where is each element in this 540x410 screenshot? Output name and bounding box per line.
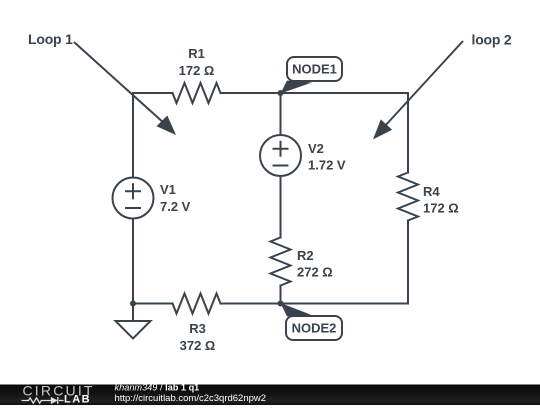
annotation loop 2 arrow: [373, 32, 512, 140]
label R4 value: [423, 184, 459, 216]
voltage source V1: [113, 178, 154, 219]
CircuitLab logo: [22, 382, 95, 405]
label R2 value: [297, 248, 333, 280]
label R3 value: [180, 321, 216, 353]
svg-text:LAB: LAB: [64, 394, 91, 406]
wire middle between V2 and R2: [280, 176, 282, 238]
node NODE2 flag: [281, 303, 343, 340]
footer title text: [115, 383, 267, 405]
resistor R4: [398, 173, 418, 221]
wire left upper: [132, 93, 134, 178]
node NODE1 junction dot: [278, 90, 284, 96]
wire middle top: [280, 93, 282, 135]
wire bottom-right segment: [221, 303, 409, 305]
label V1 value: [160, 182, 191, 214]
svg-text:R3: R3: [189, 321, 206, 336]
svg-text:R1: R1: [188, 46, 205, 61]
wire top-right segment: [221, 92, 409, 94]
resistor R1: [173, 83, 221, 103]
svg-text:NODE1: NODE1: [292, 62, 337, 77]
svg-text:272 Ω: 272 Ω: [297, 265, 333, 280]
svg-text:loop 2: loop 2: [472, 32, 512, 48]
svg-text:NODE2: NODE2: [292, 321, 337, 336]
wire right upper: [407, 93, 409, 173]
node NODE1 flag: [281, 57, 343, 94]
resistor R2: [271, 238, 291, 286]
svg-text:7.2 V: 7.2 V: [160, 199, 191, 214]
svg-text:172 Ω: 172 Ω: [423, 201, 459, 216]
svg-text:172 Ω: 172 Ω: [179, 63, 215, 78]
node NODE2 junction dot: [278, 301, 284, 307]
svg-text:Loop 1: Loop 1: [28, 31, 73, 47]
footer bar: [0, 385, 540, 406]
svg-text:372 Ω: 372 Ω: [180, 338, 216, 353]
svg-text:http://circuitlab.com/c2c3qrd6: http://circuitlab.com/c2c3qrd62npw2: [115, 393, 267, 404]
resistor R3: [173, 294, 221, 314]
svg-text:khanm349 / lab 1 q1: khanm349 / lab 1 q1: [115, 383, 200, 393]
ground: [116, 304, 151, 339]
svg-text:V1: V1: [160, 182, 176, 197]
svg-text:R2: R2: [297, 248, 314, 263]
label V2 value: [308, 141, 346, 173]
voltage source V2: [260, 135, 301, 176]
label R1 value: [179, 46, 215, 78]
wire right lower: [407, 221, 409, 304]
svg-text:R4: R4: [423, 184, 440, 199]
node junction dot bottom-left: [130, 301, 136, 307]
wire middle bottom: [280, 286, 282, 304]
svg-text:V2: V2: [308, 141, 324, 156]
wire bottom-left segment: [133, 303, 173, 305]
wire left lower: [132, 219, 134, 304]
wire top-left segment: [133, 92, 173, 94]
annotation Loop 1 arrow: [28, 31, 176, 135]
svg-text:1.72 V: 1.72 V: [308, 158, 346, 173]
